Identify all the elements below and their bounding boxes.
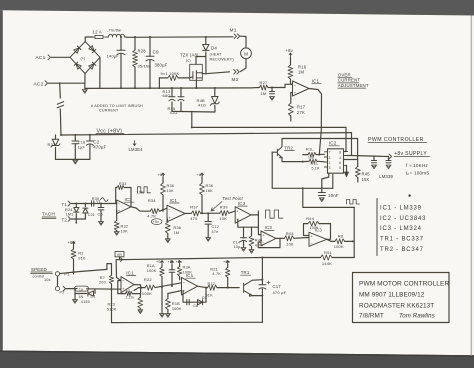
svg-text:C14: C14 — [233, 241, 241, 245]
junction gate drive node — [191, 126, 193, 128]
svg-text:ADJUSTMENT: ADJUSTMENT — [338, 83, 369, 88]
svg-text:R36: R36 — [167, 184, 175, 188]
snubber cap Cb — [180, 88, 182, 97]
decoupling cap Cd2 — [388, 156, 390, 160]
svg-text:TR1 - BC337: TR1 - BC337 — [380, 237, 424, 243]
svg-text:R39: R39 — [220, 204, 229, 209]
svg-text:f ≈ 10KHz: f ≈ 10KHz — [406, 163, 428, 168]
svg-text:+5v: +5v — [156, 260, 163, 264]
square glyph above R34 — [138, 187, 151, 193]
capacitor C12 4n7 — [207, 213, 209, 221]
wire gate drive down — [191, 111, 193, 127]
wire motor to M2 — [241, 59, 247, 72]
junction Vcc left — [60, 134, 62, 136]
svg-text:D4: D4 — [211, 46, 217, 51]
wire osc net right leg — [353, 207, 355, 257]
square wave glyph mid — [266, 210, 284, 218]
junction R2 pot row — [73, 271, 75, 273]
svg-text:C21: C21 — [88, 213, 95, 217]
svg-text:control: control — [33, 274, 45, 278]
diode D4 heat recovery — [205, 37, 207, 45]
resistor R1B 160K — [167, 294, 169, 299]
bridge rectifier BR1 — [70, 42, 100, 74]
junction C6 tap — [100, 203, 102, 205]
zener R31 — [55, 135, 57, 139]
svg-text:470: 470 — [190, 216, 198, 221]
wire pot top row — [60, 269, 107, 273]
IC2 chip body — [328, 149, 344, 173]
svg-text:4.7K: 4.7K — [147, 214, 156, 219]
wire IC1c out — [185, 212, 192, 214]
wire into IC3c — [258, 227, 261, 234]
svg-text:R6: R6 — [338, 234, 344, 239]
capacitor C17 470uF — [261, 258, 263, 285]
series cap C5 on tach row — [91, 201, 93, 206]
svg-text:7/8/RMT: 7/8/RMT — [359, 313, 384, 320]
timing capacitor C10 10nF — [321, 188, 323, 192]
svg-text:M: M — [244, 51, 248, 56]
svg-text:41Ω: 41Ω — [198, 103, 206, 108]
feedback loop IC3c — [258, 238, 280, 247]
svg-text:R43: R43 — [286, 231, 295, 236]
svg-text:1M: 1M — [174, 231, 180, 235]
wire pot wiper row — [66, 288, 77, 290]
resistor R28 35/1W — [134, 37, 136, 50]
wire cap to opamp row — [87, 288, 122, 290]
+8V label speed — [72, 242, 75, 246]
svg-text:M2: M2 — [232, 77, 239, 83]
wire sense to IC1b — [285, 84, 293, 87]
op-amp IC3a tach amp — [117, 200, 131, 214]
resistor R22 100K — [145, 285, 155, 290]
resistor R2 910 — [73, 246, 75, 250]
svg-text:# ADDED TO LIMIT INRUSH: # ADDED TO LIMIT INRUSH — [91, 104, 143, 108]
svg-text:4.7K: 4.7K — [212, 272, 221, 276]
svg-text:8: 8 — [339, 151, 341, 155]
svg-text:12 A: 12 A — [93, 30, 102, 35]
svg-text:tₚ= 100mS: tₚ= 100mS — [406, 170, 430, 175]
MOSFET Q1 — [193, 71, 202, 80]
resistor R16 1M — [289, 53, 292, 57]
title box frame — [353, 273, 450, 323]
TR2 collector net wire — [282, 139, 358, 160]
svg-text:TR2: TR2 — [284, 146, 293, 151]
sine wave glyph — [101, 198, 109, 202]
resistor R17 27K — [291, 93, 293, 104]
junction dots on top rail — [120, 36, 122, 38]
svg-text:1µF: 1µF — [78, 145, 86, 149]
svg-text:10µ: 10µ — [234, 245, 242, 249]
svg-text:LM3E4: LM3E4 — [129, 147, 144, 152]
svg-text:2: 2 — [329, 156, 331, 160]
wire osc net down — [303, 188, 354, 207]
svg-text:IC3: IC3 — [238, 201, 246, 206]
op-amp IC1a speed — [121, 277, 134, 293]
svg-text:10K: 10K — [286, 242, 294, 246]
snubber cap Ca — [171, 88, 173, 97]
svg-text:R7: R7 — [100, 276, 105, 280]
svg-text:T1: T1 — [62, 202, 68, 207]
svg-text:R1A: R1A — [147, 264, 155, 268]
svg-text:R12: R12 — [208, 282, 216, 286]
wire IC2 bottom left pin down — [322, 173, 329, 188]
wire top rail to M1 — [127, 36, 234, 39]
wire IC3b out down — [257, 211, 259, 215]
svg-text:5: 5 — [339, 166, 341, 170]
svg-text:10nF: 10nF — [328, 193, 339, 198]
IC2 right pin stubs — [344, 152, 348, 166]
Vcc +8V rail — [61, 133, 352, 135]
svg-text:R37: R37 — [190, 204, 199, 209]
wire R34 to IC1c — [159, 208, 167, 211]
AC1 terminal arrow — [48, 55, 50, 60]
wire T1 row — [72, 203, 117, 205]
svg-text:IC1 - LM339: IC1 - LM339 — [380, 206, 422, 212]
wire bridge right leg — [99, 57, 101, 88]
svg-text:R34: R34 — [148, 198, 157, 203]
resistor R12 51K — [208, 285, 218, 290]
parts list divider line — [376, 199, 378, 256]
svg-text:V1: V1 — [126, 289, 131, 293]
resistor R37 470 — [192, 211, 201, 216]
capacitor C14 10u — [243, 227, 245, 238]
resistor R23 510K — [139, 294, 141, 298]
wire A corner down to pin — [344, 127, 347, 151]
wire IC1a out — [134, 288, 145, 291]
svg-text:35/1W: 35/1W — [138, 64, 151, 69]
svg-text:1M1: 1M1 — [66, 212, 74, 216]
resistor R32 10K — [116, 210, 118, 220]
svg-text:C17: C17 — [273, 284, 282, 289]
svg-text:R45: R45 — [362, 172, 371, 177]
+8v supply wire — [352, 156, 389, 157]
svg-text:C9: C9 — [153, 50, 160, 55]
svg-text:1.2m: 1.2m — [125, 295, 133, 299]
svg-text:P2: P2 — [60, 291, 65, 295]
svg-text:R51: R51 — [324, 250, 333, 255]
svg-text:R44: R44 — [306, 216, 315, 221]
svg-text:PWM MOTOR CONTROLLER: PWM MOTOR CONTROLLER — [359, 281, 449, 288]
junction emitter node — [302, 161, 304, 163]
svg-text:4150: 4150 — [81, 300, 90, 304]
op-amp IC1d error amp — [182, 277, 198, 295]
scanner top border band — [0, 0, 474, 16]
svg-text:TR1: TR1 — [241, 270, 250, 275]
VR reference box — [115, 252, 124, 257]
svg-text:IC2 - UC3843: IC2 - UC3843 — [380, 216, 426, 222]
junction IC1b output to pin — [318, 154, 320, 156]
+8v pullup R3A 100K — [178, 261, 181, 265]
junction base net — [321, 187, 323, 189]
resistor R36b 1M — [166, 217, 169, 222]
svg-text:1: 1 — [329, 161, 331, 165]
svg-text:18K: 18K — [206, 189, 214, 193]
svg-text:100K: 100K — [142, 291, 152, 296]
zener ZD1 — [214, 88, 216, 97]
svg-text:4: 4 — [339, 156, 341, 160]
svg-text:+8v: +8v — [158, 172, 165, 177]
junction tach — [75, 203, 77, 205]
svg-text:TR2 - BC347: TR2 - BC347 — [380, 247, 424, 253]
svg-text:CURRENT: CURRENT — [99, 109, 119, 113]
fuse F1 12A — [93, 35, 106, 38]
integrator net long wire — [116, 258, 262, 260]
svg-text:TACH: TACH — [42, 212, 55, 217]
svg-text:T2: T2 — [62, 218, 68, 223]
svg-text:R28: R28 — [138, 49, 147, 54]
junction R27 node — [271, 87, 273, 89]
svg-text:100K: 100K — [334, 244, 344, 249]
svg-text:PWM CONTROLLER: PWM CONTROLLER — [368, 137, 424, 143]
svg-text:470 µF: 470 µF — [273, 290, 287, 295]
svg-text:100K: 100K — [147, 269, 157, 273]
+5v cap C7 — [171, 261, 174, 265]
potentiometer P1 — [55, 272, 59, 276]
svg-text:·68Ω: ·68Ω — [161, 93, 171, 98]
feedback diode D3 — [198, 300, 203, 305]
svg-text:R31: R31 — [48, 142, 57, 147]
svg-text:R33: R33 — [119, 182, 127, 186]
svg-text:AC2: AC2 — [34, 82, 44, 88]
ground column mid — [161, 287, 163, 314]
resistor R27 1M — [252, 87, 260, 89]
svg-text:IC1: IC1 — [312, 79, 320, 84]
svg-text:IC3 - LM324: IC3 - LM324 — [380, 226, 422, 232]
wire TR2 emitter row — [282, 158, 303, 162]
svg-text:C18: C18 — [78, 141, 86, 145]
svg-text:R32: R32 — [121, 225, 129, 229]
ground below bridge — [82, 90, 87, 94]
annotation +5v oval — [151, 219, 162, 225]
resistor R39 10K — [220, 211, 229, 216]
capacitor C6 — [100, 204, 102, 208]
junction C17 column — [261, 257, 263, 259]
resistor R51 144K — [262, 257, 320, 259]
wire IC1a minus from integrator net — [116, 260, 121, 281]
wire Vcc filter return — [56, 158, 90, 160]
ground branch speed — [74, 289, 76, 300]
bus junction dots — [120, 87, 122, 89]
filter cap on sense node — [271, 88, 273, 92]
svg-text:+8v: +8v — [286, 48, 294, 53]
wire R12 to TR1 — [217, 287, 239, 289]
scanner bottom border band — [0, 351, 474, 368]
svg-text:10K: 10K — [219, 216, 227, 221]
wire IC3a out to R34 — [131, 207, 150, 211]
capacitor C8 340uF — [120, 37, 122, 50]
wire IC2 pin6 ground — [346, 165, 348, 172]
svg-text:.7m/8w: .7m/8w — [107, 28, 122, 33]
svg-text:+5v: +5v — [153, 220, 159, 224]
svg-text:MM 9907 1LLBE09/12: MM 9907 1LLBE09/12 — [359, 292, 425, 299]
svg-text:470µF: 470µF — [93, 145, 106, 150]
wire M2 to drain node — [206, 72, 230, 74]
svg-text:144K: 144K — [322, 261, 332, 266]
svg-text:R1L: R1L — [306, 147, 314, 151]
svg-text:AC1: AC1 — [36, 55, 46, 61]
svg-text:910: 910 — [78, 255, 86, 260]
svg-text:Tom Rawlins: Tom Rawlins — [399, 313, 435, 320]
resistor R40 4.7K — [251, 227, 253, 236]
svg-text:RECOVERY): RECOVERY) — [210, 57, 235, 61]
resistor R45 15K — [357, 160, 359, 167]
gate drive wire A — [192, 126, 346, 128]
M1 motor terminal — [234, 34, 236, 39]
wire bridge bottom to bus — [84, 74, 86, 89]
svg-text:(c): (c) — [186, 59, 191, 63]
feedback loop IC3b — [238, 215, 259, 227]
wire right net down — [332, 175, 334, 189]
svg-text:R22: R22 — [144, 277, 153, 282]
wire M1 to motor — [240, 36, 246, 48]
svg-text:51K: 51K — [206, 293, 214, 297]
square wave glyph near IC2 — [347, 200, 360, 205]
op-amp IC3c oscillator — [261, 231, 276, 246]
svg-text:7: 7 — [329, 151, 331, 155]
wire R43 to IC3d — [294, 237, 309, 240]
svg-text:15K: 15K — [362, 177, 370, 182]
svg-text:R30: R30 — [92, 197, 100, 201]
scanner right edge line — [471, 16, 473, 356]
svg-text:IC1: IC1 — [186, 273, 194, 278]
junction R38 row — [201, 212, 203, 214]
wire TR2 base down — [272, 152, 333, 188]
LM3E4 tap arrow — [133, 141, 136, 146]
svg-text:5.1K: 5.1K — [312, 167, 321, 171]
wire TR1 emitter — [252, 295, 262, 297]
svg-text:C6: C6 — [98, 212, 103, 216]
snubber box around MOSFET — [190, 64, 203, 80]
svg-text:10K: 10K — [308, 155, 315, 159]
resistor R6 100K — [327, 239, 331, 241]
svg-text:R3A: R3A — [183, 266, 191, 270]
bottom return wire — [112, 321, 263, 323]
svg-text:10K: 10K — [121, 229, 129, 233]
wire R22 to IC1d — [155, 283, 182, 288]
feedback cap C8 — [186, 299, 188, 305]
svg-text:+8V: +8V — [68, 240, 76, 245]
svg-text:200: 200 — [99, 281, 106, 285]
svg-text:1N: 1N — [78, 295, 83, 299]
ground Vcc filter — [73, 160, 78, 164]
junction R6 osc net — [352, 240, 354, 242]
decoupling cap Cd1 — [373, 156, 375, 161]
wire gate divider to neutral bus — [158, 78, 160, 88]
svg-text:✱: ✱ — [408, 193, 412, 198]
svg-text:M1: M1 — [230, 28, 237, 34]
svg-text:+8v: +8v — [197, 172, 204, 177]
capacitor C9 380uF — [149, 37, 151, 56]
svg-text:140µF: 140µF — [107, 54, 120, 59]
+8v pullup R35 — [162, 173, 165, 177]
feedback loop IC1a — [132, 285, 140, 294]
capacitor C2 470uF — [89, 135, 91, 141]
svg-text:+8v: +8v — [223, 260, 230, 264]
+8v pullup R21 4.7K — [226, 261, 229, 265]
inductor L1 — [106, 34, 127, 37]
svg-text:(+): (+) — [81, 56, 86, 60]
op-amp IC3d pwm ramp — [309, 232, 327, 246]
svg-text:IC1: IC1 — [126, 270, 134, 275]
svg-text:380µF: 380µF — [155, 63, 168, 68]
wire AC2 — [49, 82, 85, 84]
svg-text:LM339: LM339 — [379, 174, 394, 179]
svg-text:10K: 10K — [167, 189, 175, 193]
svg-text:47n: 47n — [212, 230, 219, 234]
junction R35 row — [162, 209, 164, 211]
svg-text:6: 6 — [339, 161, 341, 165]
diode D1 1N4150 — [94, 289, 96, 294]
motor M — [241, 48, 252, 59]
svg-text:10k: 10k — [44, 278, 51, 282]
svg-text:160K: 160K — [172, 307, 182, 311]
M2 motor terminal — [234, 70, 236, 75]
svg-text:1M: 1M — [261, 91, 267, 96]
svg-text:+8v: +8v — [176, 260, 183, 264]
wire snubber to diode node — [196, 57, 206, 65]
capacitor C18 — [74, 135, 76, 141]
junction R7 bottom — [111, 288, 113, 290]
junction AC2 switch tap — [59, 82, 61, 84]
scanner left border strip — [0, 10, 3, 350]
svg-text:D1: D1 — [91, 295, 96, 299]
svg-text:C12: C12 — [212, 225, 220, 229]
svg-text:100K: 100K — [310, 226, 320, 230]
svg-text:IC2: IC2 — [329, 141, 337, 146]
svg-text:R23: R23 — [108, 303, 116, 307]
svg-text:1µ: 1µ — [79, 287, 83, 291]
svg-text:(HEAT: (HEAT — [210, 53, 223, 57]
op-amp IC1c tach comparator — [167, 205, 185, 222]
svg-text:R27: R27 — [260, 80, 269, 85]
feedback resistor R33 10K — [130, 188, 132, 207]
wire T2 row — [72, 218, 86, 220]
svg-text:IC1: IC1 — [170, 198, 178, 203]
svg-text:R1B: R1B — [172, 302, 180, 306]
svg-text:27K: 27K — [297, 110, 305, 115]
feedback loop IC1d — [197, 286, 206, 287]
resistor R43 10K — [280, 237, 284, 239]
svg-text:R21: R21 — [210, 268, 218, 272]
svg-text:ROADMASTER KK6213T: ROADMASTER KK6213T — [359, 302, 434, 309]
svg-text:1M: 1M — [298, 70, 305, 75]
junction gnd branch — [74, 288, 76, 290]
wire TR1 collector — [252, 279, 262, 282]
wire R39 to IC3b — [229, 211, 235, 213]
svg-text:R38: R38 — [206, 184, 214, 188]
inline fuse on AC2 leg — [59, 83, 62, 98]
AC2 terminal arrow — [45, 81, 47, 86]
diode D2 tach clamp — [84, 204, 86, 207]
svg-text:510K: 510K — [107, 307, 117, 311]
wire R37 to node — [201, 212, 220, 214]
feedback resistor R44 100K — [327, 224, 331, 240]
wire snubber caps join — [172, 110, 215, 113]
pot wiper arrow — [63, 286, 65, 291]
junction R23 tap — [141, 287, 143, 289]
resistor R34 4.7K — [150, 209, 159, 214]
svg-text:IC3: IC3 — [265, 225, 273, 230]
svg-text:R17: R17 — [297, 105, 306, 110]
svg-text:+5v: +5v — [168, 260, 175, 264]
svg-text:SPEED: SPEED — [31, 267, 47, 272]
+8v pullup R38 — [201, 173, 204, 177]
IC2 left pin stubs — [324, 152, 327, 167]
junction R21 tap — [227, 287, 229, 289]
+5v pullup R1A 100K — [161, 261, 164, 265]
film cap C4 1u — [75, 286, 89, 291]
neutral bus wire — [85, 87, 252, 90]
